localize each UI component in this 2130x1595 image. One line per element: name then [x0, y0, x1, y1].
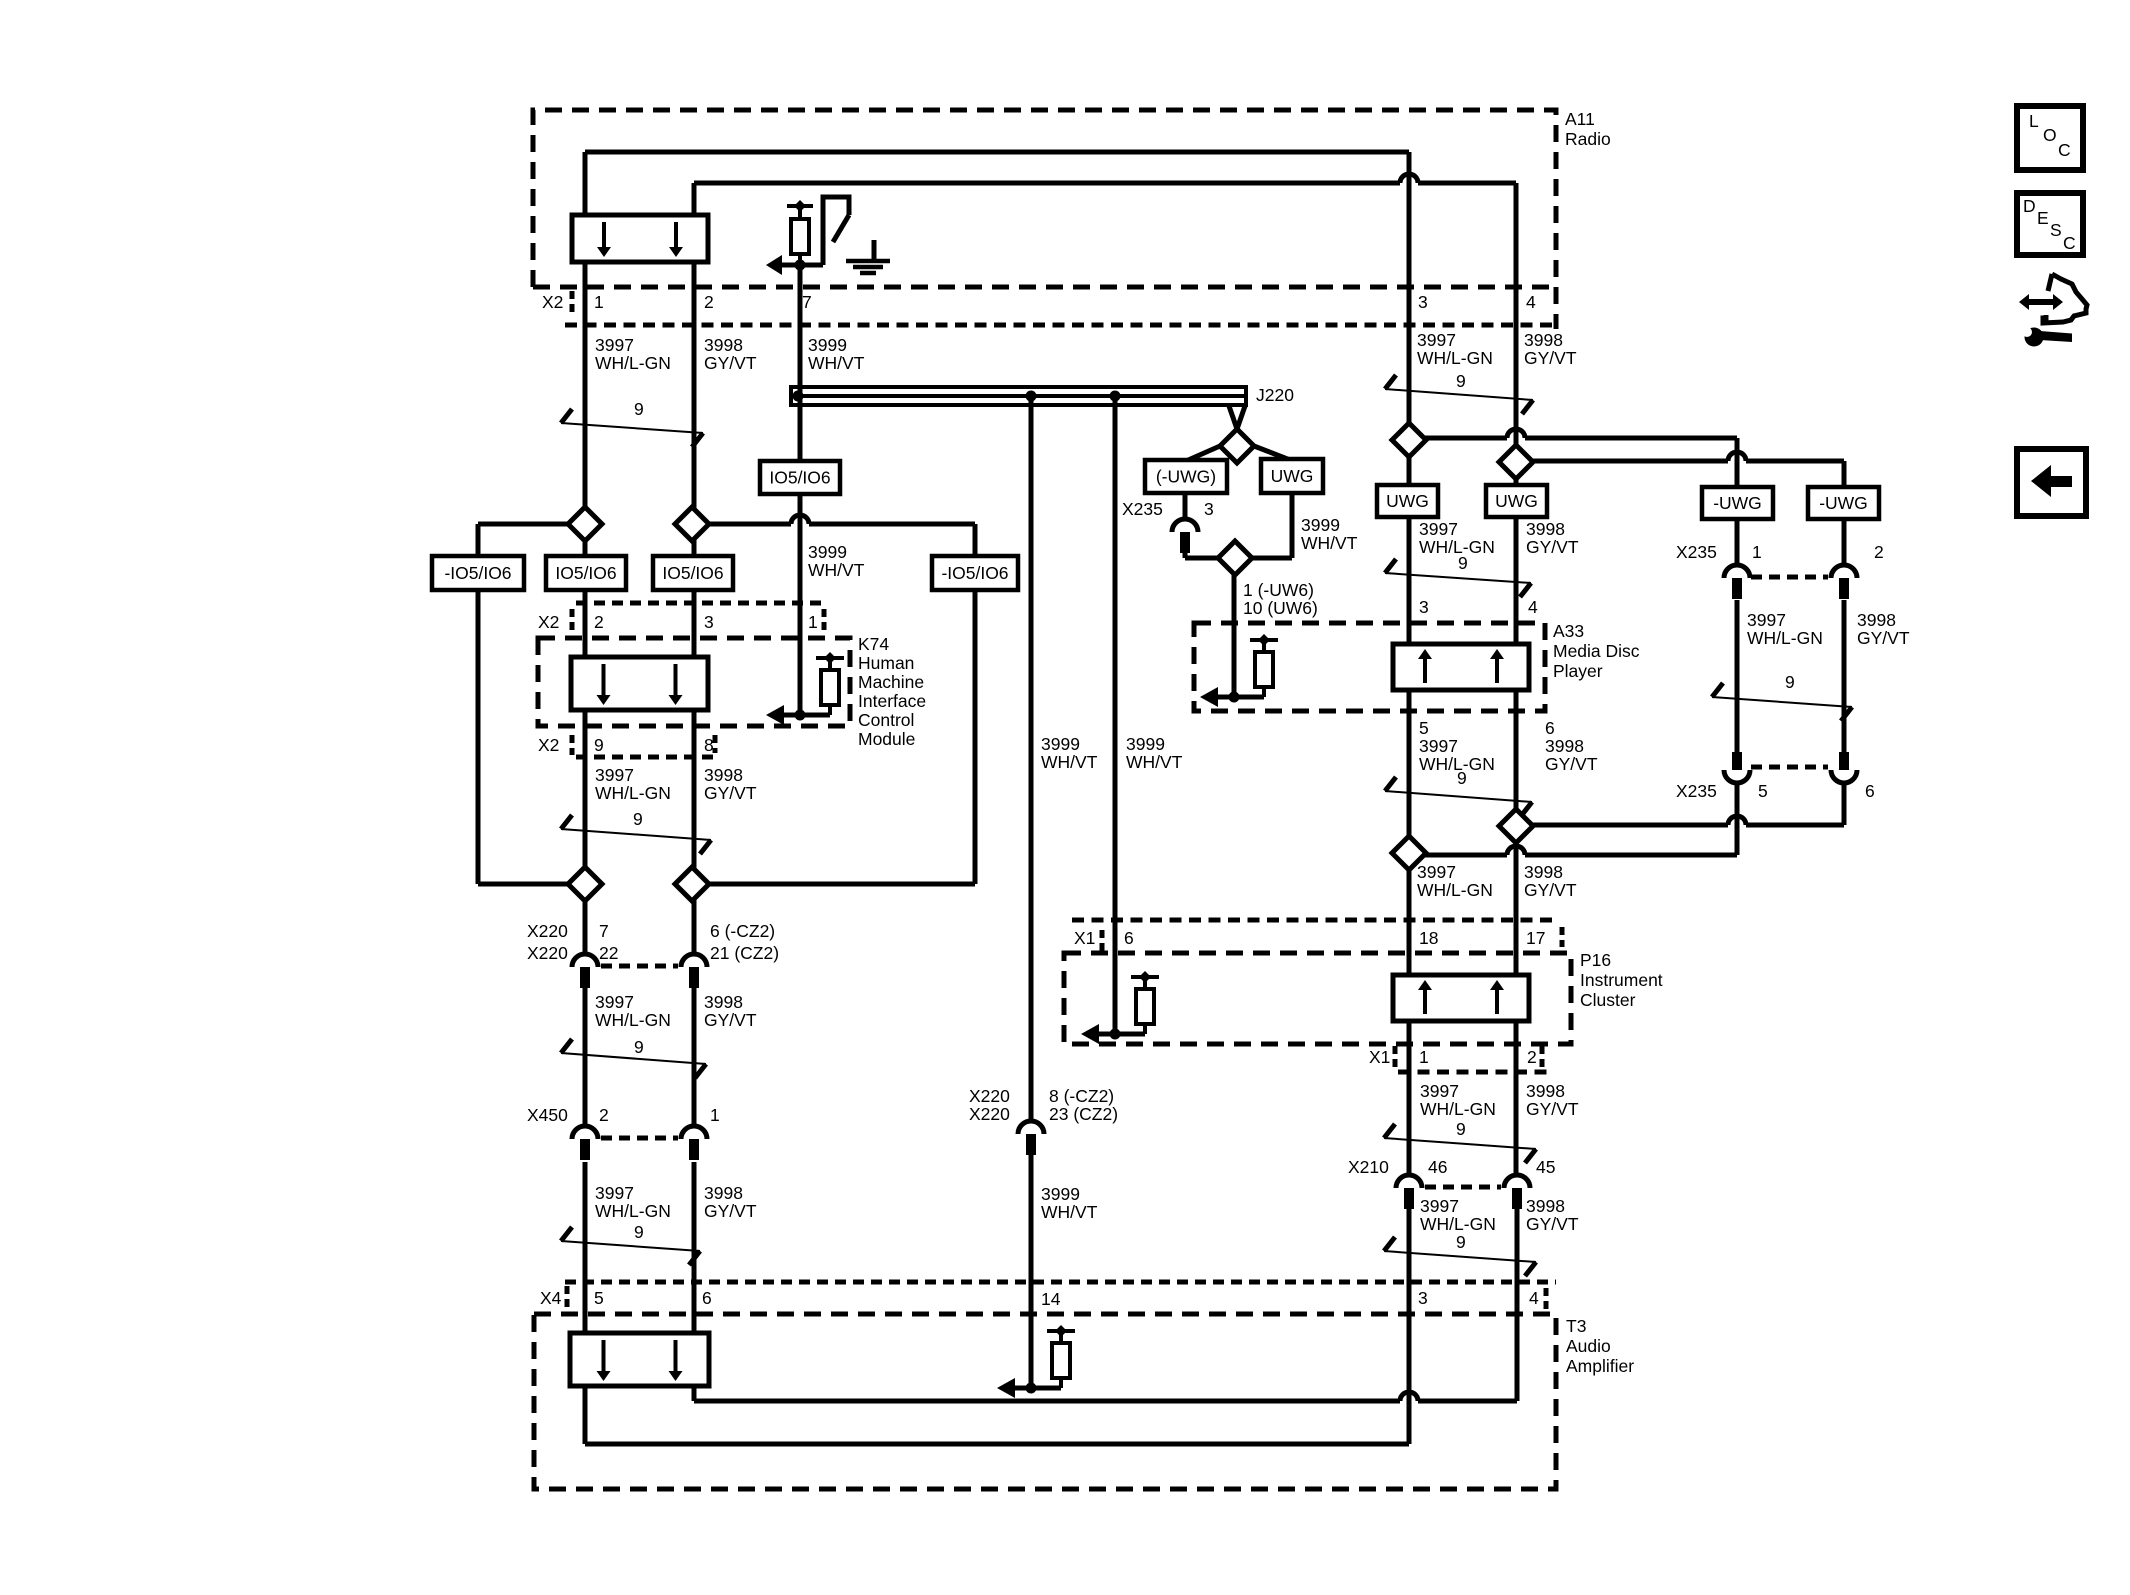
junction dot J220 mid2: [1110, 391, 1121, 402]
svg-text:3998: 3998: [1526, 519, 1565, 539]
junction dot J220 mid1: [1026, 391, 1037, 402]
svg-text:3: 3: [1419, 597, 1429, 617]
svg-text:(-UWG): (-UWG): [1156, 467, 1216, 487]
svg-text:3997: 3997: [1420, 1196, 1459, 1216]
connector band X2 radio tick: [570, 291, 575, 315]
splice diamond left pair 2 upper: [675, 507, 709, 541]
svg-text:3: 3: [704, 612, 714, 632]
svg-text:X450: X450: [527, 1105, 568, 1125]
svg-text:WH/VT: WH/VT: [808, 353, 865, 373]
svg-text:GY/VT: GY/VT: [1545, 754, 1598, 774]
svg-text:9: 9: [633, 809, 643, 829]
svg-text:GY/VT: GY/VT: [704, 1010, 757, 1030]
splice diamond left pair 1 lower: [568, 867, 602, 901]
svg-text:3997: 3997: [1419, 519, 1458, 539]
wire 3997 left pair (radio X2-1 down to T3 X4-5): [583, 262, 588, 954]
svg-text:9: 9: [1785, 672, 1795, 692]
connector X220 pin8/23: [1018, 1121, 1044, 1134]
svg-text:21 (CZ2): 21 (CZ2): [710, 943, 779, 963]
connector X235 pin2: [1831, 565, 1857, 578]
wire splice branch to -UWG pair upper: [1409, 436, 1507, 441]
svg-text:3: 3: [1204, 499, 1214, 519]
svg-text:GY/VT: GY/VT: [704, 783, 757, 803]
svg-text:3999: 3999: [1301, 515, 1340, 535]
net box UWG wire 3997: [1377, 485, 1438, 517]
connector band X2 K74-top tick right: [822, 609, 827, 631]
svg-text:GY/VT: GY/VT: [1526, 1099, 1579, 1119]
svg-text:1: 1: [1752, 542, 1762, 562]
svg-text:6: 6: [1545, 718, 1555, 738]
net box IO5/IO6 wire1: [546, 556, 626, 590]
terminator resistor K74: [766, 705, 784, 725]
wire X235-3 to UW6 splice: [1183, 493, 1188, 519]
svg-text:23 (CZ2): 23 (CZ2): [1049, 1104, 1118, 1124]
svg-text:46: 46: [1428, 1157, 1447, 1177]
svg-text:A11: A11: [1565, 109, 1595, 129]
terminator resistor P16: [1081, 1024, 1099, 1044]
wire T3 bottom link pin6 to pin4: [694, 1399, 1400, 1404]
connector band X2 K74-bottom tick left: [570, 735, 575, 755]
svg-text:3999: 3999: [1126, 734, 1165, 754]
svg-text:7: 7: [599, 921, 609, 941]
splice diamond UW6: [1218, 541, 1252, 575]
svg-text:X2: X2: [542, 292, 563, 312]
svg-text:3998: 3998: [1545, 736, 1584, 756]
net box -UWG far pair 2: [1808, 487, 1879, 519]
svg-text:5: 5: [594, 1288, 604, 1308]
svg-text:X235: X235: [1122, 499, 1163, 519]
svg-text:2: 2: [704, 292, 714, 312]
component box T3: [534, 1314, 1556, 1489]
svg-text:2: 2: [599, 1105, 609, 1125]
svg-text:5: 5: [1758, 781, 1768, 801]
svg-text:Instrument: Instrument: [1580, 970, 1663, 990]
icon repair contour: [2048, 274, 2052, 291]
svg-text:WH/L-GN: WH/L-GN: [595, 783, 671, 803]
wire radio internal second link (pin 2 to pin 4): [692, 183, 697, 215]
switch to ground radio pin7: [823, 197, 849, 265]
svg-text:7: 7: [802, 292, 812, 312]
svg-text:UWG: UWG: [1386, 491, 1429, 511]
svg-text:9: 9: [594, 735, 604, 755]
svg-text:3: 3: [1418, 1288, 1428, 1308]
ground symbol radio: [872, 240, 877, 259]
svg-text:S: S: [2050, 220, 2062, 240]
svg-text:UWG: UWG: [1495, 491, 1538, 511]
svg-text:3998: 3998: [1526, 1196, 1565, 1216]
net box -IO5/IO6 far left: [432, 556, 524, 590]
svg-text:3999: 3999: [1041, 734, 1080, 754]
svg-text:L: L: [2029, 111, 2039, 131]
svg-text:X220: X220: [969, 1086, 1010, 1106]
svg-text:45: 45: [1536, 1157, 1555, 1177]
svg-text:WH/VT: WH/VT: [1301, 533, 1358, 553]
svg-text:P16: P16: [1580, 950, 1611, 970]
svg-text:3997: 3997: [1417, 330, 1456, 350]
svg-text:Cluster: Cluster: [1580, 990, 1636, 1010]
component box K74: [538, 638, 850, 726]
svg-text:3997: 3997: [1747, 610, 1786, 630]
svg-text:3998: 3998: [704, 992, 743, 1012]
svg-text:3998: 3998: [704, 1183, 743, 1203]
svg-text:E: E: [2037, 208, 2049, 228]
connector X210 pin45: [1504, 1175, 1530, 1188]
shield symbol 9 right pair A33: [1385, 777, 1396, 791]
svg-text:3998: 3998: [704, 335, 743, 355]
wire (-UWG)/UWG split from J220: [1186, 446, 1220, 461]
svg-text:Radio: Radio: [1565, 129, 1611, 149]
svg-text:3997: 3997: [1417, 862, 1456, 882]
svg-text:1: 1: [710, 1105, 720, 1125]
svg-text:3997: 3997: [595, 1183, 634, 1203]
svg-text:3: 3: [1418, 292, 1428, 312]
splice bar J220: [791, 387, 1246, 405]
svg-text:X235: X235: [1676, 781, 1717, 801]
terminator resistor radio pin7: [787, 204, 813, 208]
wire -IO5/IO6 left branch upper: [478, 522, 585, 527]
svg-text:WH/L-GN: WH/L-GN: [1417, 348, 1493, 368]
wire X235-5 return to 3997 splice: [1409, 853, 1507, 858]
net box -UWG far pair 1: [1702, 487, 1773, 519]
svg-text:14: 14: [1041, 1289, 1061, 1309]
wire 3998 right pair (radio X2-4 down to T3 pin4): [1514, 330, 1519, 644]
component box P16: [1064, 953, 1571, 1044]
connector X220 pin6/21: [681, 954, 707, 967]
connector X235 pin1: [1724, 565, 1750, 578]
connector band X2 K74-bottom dotted line: [576, 755, 716, 760]
connector X235 5-6 dashed link: [1751, 765, 1828, 770]
component box A11 Radio: [533, 110, 1556, 329]
twisted-pair receiver box T3: [570, 1333, 709, 1386]
splice diamond J220 right: [1220, 429, 1254, 463]
component box A33: [1194, 623, 1545, 711]
shield symbol 9 left pair mid: [561, 815, 572, 829]
junction dot J220 left: [793, 391, 804, 402]
connector band X1 P16-bottom tick right: [1540, 1046, 1545, 1070]
svg-text:6: 6: [702, 1288, 712, 1308]
icon box LOC: [2017, 106, 2083, 170]
connector X450 pin2: [572, 1126, 598, 1139]
svg-text:UWG: UWG: [1271, 466, 1314, 486]
svg-text:9: 9: [1456, 1119, 1466, 1139]
svg-text:4: 4: [1528, 597, 1538, 617]
wire 3998 left pair (radio X2-2 down to T3 X4-6): [692, 262, 697, 954]
svg-text:Human: Human: [858, 653, 914, 673]
shield symbol 9 left pair X450: [561, 1227, 572, 1241]
twisted-pair receiver box A33: [1393, 644, 1529, 690]
svg-text:3998: 3998: [1524, 862, 1563, 882]
svg-text:GY/VT: GY/VT: [704, 353, 757, 373]
connector band X4 T3 tick right: [1544, 1288, 1549, 1309]
svg-text:4: 4: [1526, 292, 1536, 312]
svg-text:6 (-CZ2): 6 (-CZ2): [710, 921, 775, 941]
svg-text:3999: 3999: [808, 542, 847, 562]
shield symbol 9 right pair X210: [1384, 1237, 1395, 1251]
svg-text:9: 9: [634, 399, 644, 419]
splice diamond right pair 3997 lower: [1392, 836, 1426, 870]
svg-text:WH/L-GN: WH/L-GN: [595, 353, 671, 373]
svg-text:K74: K74: [858, 634, 889, 654]
svg-text:WH/L-GN: WH/L-GN: [595, 1010, 671, 1030]
svg-text:9: 9: [1456, 371, 1466, 391]
svg-text:WH/L-GN: WH/L-GN: [595, 1201, 671, 1221]
svg-text:3999: 3999: [808, 335, 847, 355]
connector X235 1-2 dashed link: [1751, 575, 1828, 580]
wire X235-6 return to 3998 splice: [1516, 823, 1728, 828]
svg-text:J220: J220: [1256, 385, 1294, 405]
wire 3997 right pair (radio X2-3 down to T3 pin3): [1407, 330, 1412, 644]
connector band X1 P16-top tick right: [1560, 927, 1565, 947]
connector band X2 K74-bottom tick right: [713, 735, 718, 753]
svg-text:6: 6: [1865, 781, 1875, 801]
svg-text:9: 9: [634, 1222, 644, 1242]
connector band X2 K74-top tick left: [570, 609, 575, 634]
terminator resistor T3: [997, 1378, 1015, 1398]
svg-text:X235: X235: [1676, 542, 1717, 562]
svg-text:X210: X210: [1348, 1157, 1389, 1177]
svg-text:WH/VT: WH/VT: [1126, 752, 1183, 772]
icon repair double arrow: [2019, 294, 2063, 310]
net box IO5/IO6 wire2: [653, 556, 733, 590]
connector X450 dashed link: [601, 1136, 678, 1141]
icon wrench: [2025, 328, 2044, 347]
svg-text:WH/L-GN: WH/L-GN: [1747, 628, 1823, 648]
shield symbol 9 right pair X1: [1384, 1124, 1395, 1138]
svg-text:8: 8: [704, 735, 714, 755]
svg-text:WH/L-GN: WH/L-GN: [1420, 1099, 1496, 1119]
connector band X1 P16-bottom tick left: [1393, 1046, 1398, 1071]
svg-text:GY/VT: GY/VT: [704, 1201, 757, 1221]
svg-text:X220: X220: [527, 921, 568, 941]
svg-text:3998: 3998: [1526, 1081, 1565, 1101]
svg-text:5: 5: [1419, 718, 1429, 738]
svg-text:3999: 3999: [1041, 1184, 1080, 1204]
wire T3 bottom link pin5 to pin3: [585, 1442, 1409, 1447]
svg-text:3998: 3998: [1857, 610, 1896, 630]
svg-text:-UWG: -UWG: [1713, 493, 1762, 513]
svg-text:X220: X220: [527, 943, 568, 963]
splice diamond left pair 2 lower: [675, 867, 709, 901]
connector band X1 P16-bottom dotted line: [1398, 1070, 1547, 1075]
splice diamond right pair 3997 upper: [1392, 423, 1426, 457]
twisted-pair receiver box K74: [571, 657, 708, 710]
splice diamond right pair 3998 upper: [1499, 445, 1533, 479]
svg-text:1 (-UW6): 1 (-UW6): [1243, 580, 1314, 600]
svg-text:C: C: [2063, 233, 2076, 253]
svg-text:2: 2: [1527, 1047, 1537, 1067]
svg-text:X1: X1: [1369, 1047, 1390, 1067]
svg-text:X2: X2: [538, 612, 559, 632]
connector band X4 T3 dotted line: [565, 1280, 1556, 1285]
splice diamond left pair 1 upper: [568, 507, 602, 541]
connector X235 pin3: [1172, 519, 1198, 532]
net box -IO5/IO6 right: [932, 556, 1018, 590]
splice diamond right pair 3998 lower: [1499, 809, 1533, 843]
connector X210 pin46: [1396, 1175, 1422, 1188]
svg-text:WH/L-GN: WH/L-GN: [1419, 537, 1495, 557]
terminator resistor A33: [1200, 687, 1218, 707]
twisted-pair receiver box radio: [572, 215, 708, 262]
svg-text:6: 6: [1124, 928, 1134, 948]
svg-text:3997: 3997: [595, 992, 634, 1012]
svg-text:GY/VT: GY/VT: [1524, 880, 1577, 900]
icon box DESC: [2017, 193, 2083, 255]
svg-text:GY/VT: GY/VT: [1526, 537, 1579, 557]
svg-text:Machine: Machine: [858, 672, 924, 692]
svg-text:Audio: Audio: [1566, 1336, 1611, 1356]
connector band X1 P16-top dotted line: [1072, 918, 1556, 923]
svg-text:WH/L-GN: WH/L-GN: [1417, 880, 1493, 900]
connector X235 pin6: [1839, 752, 1849, 770]
connector X450 pin1: [681, 1126, 707, 1139]
shield symbol 9 right pair UWG: [1385, 559, 1396, 573]
svg-text:C: C: [2058, 140, 2071, 160]
net box (-UWG): [1145, 460, 1227, 493]
icon box back arrow: [2017, 449, 2086, 516]
svg-text:WH/VT: WH/VT: [808, 560, 865, 580]
svg-text:T3: T3: [1566, 1316, 1586, 1336]
shield symbol 9 right pair upper: [1385, 375, 1396, 389]
svg-text:WH/VT: WH/VT: [1041, 752, 1098, 772]
svg-text:10 (UW6): 10 (UW6): [1243, 598, 1318, 618]
svg-text:IO5/IO6: IO5/IO6: [555, 563, 616, 583]
svg-text:D: D: [2023, 196, 2036, 216]
svg-text:Module: Module: [858, 729, 915, 749]
svg-text:4: 4: [1529, 1288, 1539, 1308]
svg-text:3998: 3998: [1524, 330, 1563, 350]
twisted-pair receiver box P16: [1393, 975, 1529, 1021]
svg-text:3997: 3997: [1419, 736, 1458, 756]
svg-text:1: 1: [594, 292, 604, 312]
svg-text:X4: X4: [540, 1288, 562, 1308]
connector X235 pin5: [1732, 752, 1742, 770]
svg-text:Control: Control: [858, 710, 914, 730]
svg-text:-IO5/IO6: -IO5/IO6: [941, 563, 1008, 583]
svg-text:9: 9: [634, 1037, 644, 1057]
svg-text:3997: 3997: [595, 335, 634, 355]
svg-text:X220: X220: [969, 1104, 1010, 1124]
svg-text:9: 9: [1456, 1232, 1466, 1252]
svg-text:22: 22: [599, 943, 618, 963]
wire 3999 J220 branch to T3 pin14: [1029, 396, 1034, 1121]
svg-text:IO5/IO6: IO5/IO6: [769, 468, 830, 488]
wire 3999 J220 branch to P16 X1-6: [1113, 396, 1118, 1034]
connector X220 pin7/22: [572, 954, 598, 967]
svg-text:18: 18: [1419, 928, 1438, 948]
svg-text:O: O: [2043, 125, 2057, 145]
net box UWG wire 3998: [1486, 485, 1547, 517]
svg-text:GY/VT: GY/VT: [1526, 1214, 1579, 1234]
svg-text:3998: 3998: [704, 765, 743, 785]
wire -IO5/IO6 left branch lower: [476, 590, 481, 884]
wire splice branch to -UWG pair second: [1516, 459, 1728, 464]
connector X210 dashed link: [1425, 1185, 1501, 1190]
svg-text:GY/VT: GY/VT: [1857, 628, 1910, 648]
connector band X1 P16-top tick left: [1100, 930, 1105, 952]
wire UW6 splice down to A33 terminator: [1232, 575, 1237, 697]
svg-text:Amplifier: Amplifier: [1566, 1356, 1634, 1376]
svg-text:17: 17: [1526, 928, 1545, 948]
wire radio internal top link (pin 1 to pin 3): [585, 150, 1409, 155]
svg-text:X2: X2: [538, 735, 559, 755]
svg-text:-UWG: -UWG: [1819, 493, 1868, 513]
connector band X2 K74-top dotted line: [576, 601, 827, 606]
svg-text:1: 1: [1419, 1047, 1429, 1067]
svg-text:WH/L-GN: WH/L-GN: [1419, 754, 1495, 774]
shield symbol 9 left pair X220: [561, 1039, 572, 1053]
svg-text:WH/VT: WH/VT: [1041, 1202, 1098, 1222]
shield symbol 9 left pair upper: [561, 409, 572, 423]
net box IO5/IO6 on 3999: [760, 461, 840, 494]
svg-text:3997: 3997: [595, 765, 634, 785]
svg-text:2: 2: [1874, 542, 1884, 562]
wire IO5/IO6 right branch upper: [692, 522, 791, 527]
svg-text:IO5/IO6: IO5/IO6: [662, 563, 723, 583]
svg-text:Interface: Interface: [858, 691, 926, 711]
wire 3999 radio pin7 down through J220 to K74 pin1: [798, 265, 803, 715]
svg-text:A33: A33: [1553, 621, 1584, 641]
svg-text:8 (-CZ2): 8 (-CZ2): [1049, 1086, 1114, 1106]
svg-text:X1: X1: [1074, 928, 1095, 948]
svg-text:GY/VT: GY/VT: [1524, 348, 1577, 368]
connector band X2 radio dotted line: [565, 323, 1556, 328]
svg-text:-IO5/IO6: -IO5/IO6: [444, 563, 511, 583]
shield symbol 9 far pair: [1712, 683, 1723, 697]
connector X220 dashed link: [601, 964, 678, 969]
svg-text:1: 1: [808, 612, 818, 632]
svg-text:2: 2: [594, 612, 604, 632]
connector band X4 T3 tick left: [565, 1286, 570, 1311]
svg-text:Player: Player: [1553, 661, 1603, 681]
net box UWG j220: [1261, 459, 1323, 493]
svg-text:3997: 3997: [1420, 1081, 1459, 1101]
svg-text:Media Disc: Media Disc: [1553, 641, 1640, 661]
wire -IO5/IO6 right branch lower: [973, 590, 978, 884]
svg-text:WH/L-GN: WH/L-GN: [1420, 1214, 1496, 1234]
